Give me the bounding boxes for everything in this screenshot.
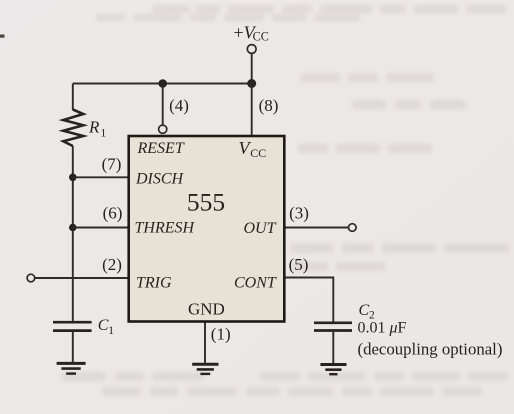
wire OUT stub [286,227,349,229]
svg-text:(4): (4) [169,96,189,115]
wire +VCC terminal to rail [251,54,253,84]
wire THRESH stub [73,227,129,229]
svg-text:(7): (7) [102,155,122,174]
pin name OUT [244,220,277,237]
pin name TRIG [136,275,172,292]
junction dot DISCH node [69,174,77,182]
svg-text:C: C [359,302,370,319]
label decoupling optional [358,340,503,359]
pin label (2) [102,255,122,274]
svg-text:0.01 μF: 0.01 μF [358,320,407,337]
svg-text:THRESH: THRESH [135,219,196,236]
capacitor C1 [53,322,92,330]
wire rail corner down to R1 [72,84,74,111]
wire VCC top rail [73,83,252,85]
pin label (7) [102,155,122,174]
label R1 [88,118,107,140]
svg-text:OUT: OUT [244,220,277,237]
junction dot pin 8 on rail [247,79,256,88]
svg-text:(1): (1) [211,325,231,344]
IC designator 555 [187,187,225,216]
label C2 [359,302,376,322]
pin name THRESH [135,219,196,236]
svg-text:(5): (5) [289,255,309,274]
svg-text:(3): (3) [289,204,309,223]
pin name VCC [239,138,267,160]
svg-text:RESET: RESET [137,140,185,157]
wire pin 4 rail to RESET terminal [162,84,164,126]
trigger input open terminal [27,274,35,282]
ground symbol C1 [57,363,86,373]
svg-text:CC: CC [250,146,266,160]
wire R1 down to C1 [72,146,74,323]
wire C1 to ground [72,331,74,362]
svg-text:TRIG: TRIG [136,275,172,292]
svg-text:555: 555 [187,187,225,216]
pin label (1) [211,325,231,344]
output open terminal [349,224,357,232]
pin label (6) [103,204,123,223]
pin label (3) [289,204,309,223]
label C2 value 0.01 uF [358,320,407,337]
junction dot pin 4 on rail [158,79,167,88]
wire CONT to C2 [286,278,334,323]
svg-text:CC: CC [253,30,269,44]
resistor R1 [63,110,83,147]
wire pin 8 rail to VCC pin [251,84,253,137]
wire TRIG input [35,277,129,279]
svg-text:R: R [88,118,100,137]
label +VCC [234,23,269,44]
pin label (8) [259,96,279,115]
ground symbol C2 [320,365,346,375]
wire C2 to ground [332,331,334,364]
svg-text:1: 1 [108,325,114,337]
label C1 [98,317,115,337]
svg-text:(2): (2) [102,255,122,274]
pin name RESET [137,140,185,157]
wire GND pin 1 [204,323,206,364]
svg-text:CONT: CONT [234,275,277,292]
svg-text:1: 1 [101,128,107,140]
svg-text:(decoupling optional): (decoupling optional) [358,340,503,359]
pin name GND [188,300,225,319]
wire DISCH stub [73,176,129,178]
pin name CONT [234,275,277,292]
svg-text:GND: GND [188,300,225,319]
svg-text:(8): (8) [259,96,279,115]
capacitor C2 [314,323,352,331]
pin label (5) [289,255,309,274]
pin label (4) [169,96,189,115]
pin name DISCH [135,171,185,188]
IC U1 555 body [129,136,285,322]
svg-text:C: C [98,317,109,334]
ground symbol GND pin [192,364,218,374]
svg-text:(6): (6) [103,204,123,223]
pin 4 RESET open terminal [159,125,167,133]
+VCC supply terminal [247,45,256,54]
svg-text:DISCH: DISCH [135,171,185,188]
junction dot THRESH node [69,224,77,232]
